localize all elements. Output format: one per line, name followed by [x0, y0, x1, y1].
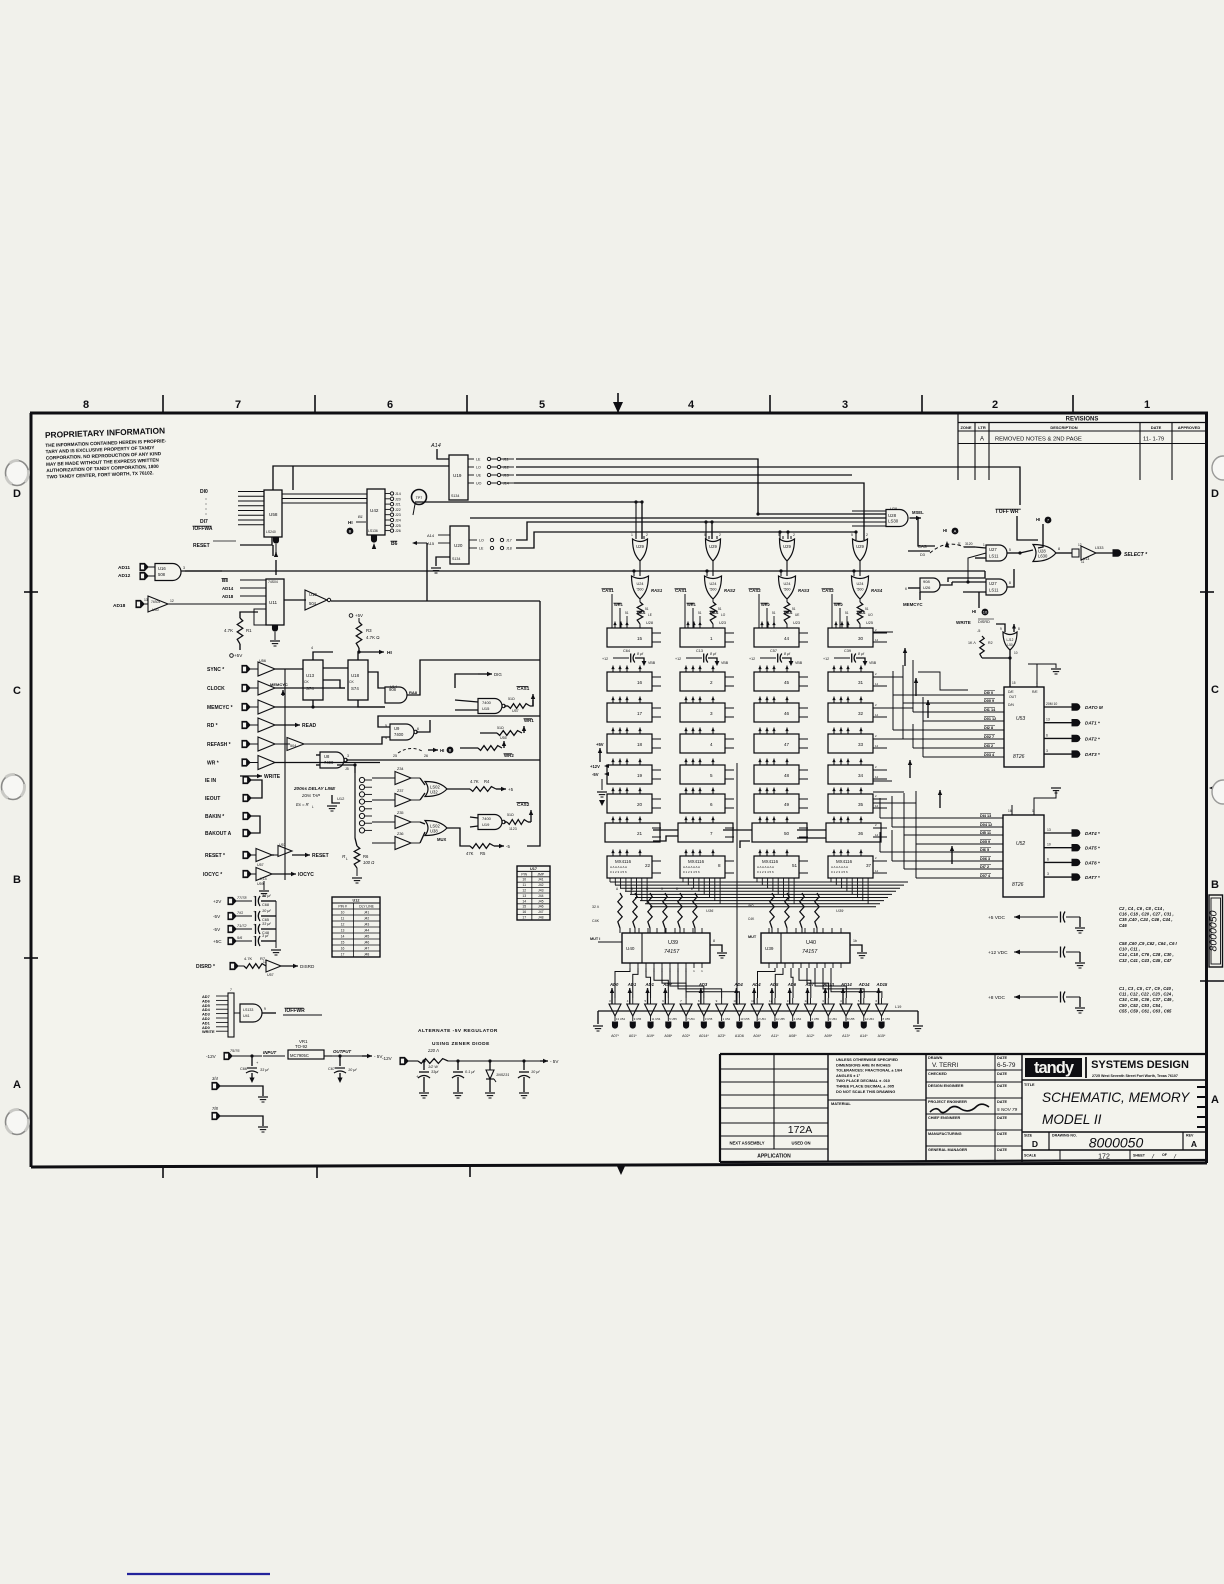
ground under buffers: [263, 881, 265, 890]
svg-text:RA8: RA8: [409, 690, 418, 695]
wire RESET to U58: [240, 537, 272, 545]
svg-text:17: 17: [341, 953, 345, 957]
svg-text:AD4: AD4: [751, 982, 761, 987]
bus stub lines into LS30: [852, 510, 886, 512]
svg-text:REMOVED NOTES & 2ND PAGE: REMOVED NOTES & 2ND PAGE: [995, 437, 1082, 443]
svg-text:A08*: A08*: [789, 1034, 797, 1038]
DRAM chip 33: [828, 734, 873, 753]
svg-text:J20: J20: [395, 497, 401, 501]
svg-text:C1 , C3 , C5 , C7 , C9 ,: C1 , C3 , C5 , C7 , C9 , C40 ,: [1119, 986, 1173, 991]
svg-text:U8: U8: [324, 754, 330, 759]
row7 inter-column wires: [653, 829, 678, 831]
resistor R5: [470, 844, 494, 849]
svg-text:A14: A14: [430, 443, 441, 449]
DRAM chip 49: [754, 794, 799, 813]
svg-text:1: 1: [1032, 809, 1034, 813]
svg-text:L533: L533: [1095, 546, 1103, 550]
svg-text:AD13: AD13: [822, 982, 834, 987]
svg-text:SCHEMATIC, MEMORY: SCHEMATIC, MEMORY: [1042, 1090, 1190, 1105]
svg-text:DATE: DATE: [997, 1084, 1008, 1088]
svg-text:25: 25: [393, 754, 397, 758]
DRAM chip 36: [826, 823, 881, 842]
svg-text:U41: U41: [243, 1014, 250, 1018]
svg-text:+12: +12: [823, 657, 829, 661]
table U17: [517, 866, 550, 920]
svg-text:R6: R6: [363, 854, 369, 859]
svg-text:TP7: TP7: [416, 496, 423, 500]
svg-text:LS133: LS133: [243, 1008, 253, 1012]
svg-text:U24: U24: [784, 582, 791, 586]
DRAM chip 45: [754, 672, 799, 691]
svg-text:8000050: 8000050: [1208, 910, 1220, 951]
svg-text:J48: J48: [364, 953, 370, 957]
svg-text:36: 36: [858, 831, 864, 836]
svg-text:DATE: DATE: [997, 1056, 1008, 1060]
U52 top pins: [1011, 805, 1013, 815]
DRAM chip 4: [680, 734, 725, 753]
svg-text:10 μf: 10 μf: [262, 909, 271, 913]
svg-text:J44: J44: [538, 894, 544, 898]
svg-text:A01*: A01*: [629, 1034, 637, 1038]
svg-text:VBB: VBB: [648, 661, 656, 665]
svg-text:J45: J45: [364, 935, 370, 939]
svg-text:2: 2: [866, 533, 868, 537]
svg-text:3: 3: [1046, 749, 1048, 753]
svg-text:3: 3: [347, 754, 349, 758]
svg-text:D07 4: D07 4: [980, 874, 991, 878]
svg-text:13: 13: [341, 929, 345, 933]
svg-text:-5: -5: [977, 629, 980, 633]
wire U53 left column feeds: [918, 672, 968, 690]
svg-text:0 1 2 3 4 5 6: 0 1 2 3 4 5 6: [831, 870, 848, 874]
wires U58 to U42: [282, 493, 367, 495]
WR buffer out / WRITE arrow: [275, 762, 380, 764]
svg-text:51Ω: 51Ω: [507, 813, 514, 817]
svg-text:6-5-79: 6-5-79: [997, 1062, 1016, 1069]
svg-text:8 μf: 8 μf: [784, 652, 791, 656]
buffer U54/U55 #9: [769, 1004, 781, 1016]
DRAM chip 32: [828, 703, 873, 722]
svg-text:SELECT *: SELECT *: [1124, 552, 1148, 558]
gate U28 LS30 (SEL): [886, 510, 908, 527]
IC U52 8T26: [1003, 815, 1044, 897]
svg-text:AD6: AD6: [787, 982, 797, 987]
svg-text:J42: J42: [364, 917, 370, 921]
gate U8 7400: [320, 752, 344, 768]
MEMCYC label arrow: [282, 690, 284, 696]
svg-text:CLOCK: CLOCK: [207, 686, 225, 692]
svg-text:5: 5: [851, 533, 853, 537]
buffer U54/U55 #8: [751, 1004, 763, 1016]
wire from B6 down: [426, 543, 428, 601]
U52 outputs DAT4-7: [1044, 832, 1072, 834]
zone tick marks top: [162, 395, 164, 413]
svg-text:J22: J22: [395, 508, 401, 512]
svg-text:A: A: [1191, 1139, 1197, 1149]
svg-text:C14 , C18 , C76 , C28 , C30: C14 , C18 , C76 , C28 , C30 ,: [1119, 952, 1174, 957]
resistor R4 to +5: [470, 787, 496, 792]
svg-text:A04*: A04*: [753, 1034, 761, 1038]
svg-text:LJ12: LJ12: [1007, 638, 1014, 642]
gate LS02 upper: [425, 782, 447, 797]
svg-text:8: 8: [1058, 547, 1060, 551]
svg-text:D01 12: D01 12: [984, 717, 996, 721]
svg-text:-5V: -5V: [213, 914, 221, 919]
svg-text:Z35: Z35: [397, 811, 404, 815]
svg-text:R5: R5: [480, 851, 486, 856]
buffer U54/U55 #14: [858, 1004, 870, 1016]
resistor R1 4.7K: [240, 612, 258, 618]
svg-text:IE IN: IE IN: [205, 778, 217, 784]
address buffer row: [598, 1010, 918, 1012]
connector U58 pin out: [273, 537, 278, 543]
flip-flop U13 S74: [303, 660, 323, 700]
mux U40/U39 74157: [622, 933, 710, 963]
svg-text:44: 44: [784, 636, 790, 641]
svg-text:J13: J13: [503, 474, 509, 478]
svg-text:C46: C46: [1119, 923, 1127, 928]
svg-text:MUX: MUX: [437, 837, 447, 842]
svg-text:SHEET: SHEET: [1133, 1154, 1146, 1158]
svg-text:5: 5: [539, 399, 545, 411]
svg-text:UE: UE: [795, 613, 799, 617]
svg-text:U26: U26: [923, 585, 931, 590]
svg-text:19: 19: [637, 773, 643, 778]
svg-text:14: 14: [341, 935, 345, 939]
svg-text:LS11: LS11: [989, 554, 999, 559]
svg-text:U9: U9: [394, 726, 400, 731]
DRAM chip 50: [752, 823, 807, 842]
svg-text:+5V: +5V: [234, 653, 243, 658]
svg-text:3: 3: [1047, 872, 1049, 876]
svg-text:DAT5 *: DAT5 *: [1085, 846, 1100, 851]
svg-text:31: 31: [858, 680, 864, 685]
svg-text:4: 4: [688, 399, 695, 411]
svg-text:Ex = R: Ex = R: [296, 802, 309, 807]
svg-text:13: 13: [522, 894, 526, 898]
svg-text:DI0 0: DI0 0: [984, 691, 993, 695]
svg-text:C2 , C4 , C6 , C8 , C14 ,: C2 , C4 , C6 , C8 , C14 ,: [1119, 906, 1164, 911]
svg-text:J5: J5: [345, 767, 349, 771]
svg-text:100 Ω: 100 Ω: [363, 860, 375, 865]
DRAM chip 31: [828, 672, 873, 691]
svg-text:DISRD: DISRD: [978, 620, 990, 624]
cap C66: [250, 1054, 253, 1057]
svg-text:U57: U57: [267, 973, 274, 977]
bus rail grounds: [597, 1011, 599, 1024]
svg-text:J12: J12: [503, 466, 509, 470]
svg-text:SCALE: SCALE: [1024, 1154, 1037, 1158]
svg-text:DISRD *: DISRD *: [196, 964, 215, 970]
svg-text:+5 VDC: +5 VDC: [988, 915, 1005, 921]
svg-text:A14*: A14*: [860, 1034, 868, 1038]
data wires to U52: [880, 817, 1003, 819]
center arrow top: [617, 393, 619, 413]
svg-text:R1: R1: [246, 628, 252, 633]
svg-text:+5V: +5V: [596, 742, 604, 747]
svg-text:5: 5: [704, 533, 706, 537]
svg-text:AD14: AD14: [840, 982, 852, 987]
svg-text:HI: HI: [440, 748, 444, 753]
svg-text:S134: S134: [452, 557, 460, 561]
svg-text:74S04: 74S04: [151, 600, 160, 604]
svg-text:U57: U57: [512, 709, 519, 713]
svg-text:J14: J14: [395, 492, 401, 496]
svg-text:MX4116: MX4116: [836, 859, 853, 864]
svg-text:DI3 2: DI3 2: [984, 744, 993, 748]
svg-text:U29: U29: [709, 544, 717, 549]
svg-text:C4K: C4K: [748, 917, 755, 921]
buffer U54/U55 #11: [804, 1004, 816, 1016]
blue pen mark bottom margin: [127, 1573, 270, 1575]
svg-text:5/6: 5/6: [237, 936, 243, 940]
svg-text:PIN: PIN: [521, 872, 527, 876]
svg-text:71/72: 71/72: [237, 924, 247, 928]
svg-text:PIN #: PIN #: [338, 905, 347, 909]
svg-text:200ns DELAY LINE: 200ns DELAY LINE: [293, 786, 336, 791]
svg-text:U24: U24: [857, 582, 864, 586]
svg-text:2: 2: [710, 680, 713, 685]
svg-text:RAS2: RAS2: [724, 588, 736, 593]
svg-text:51: 51: [698, 611, 702, 615]
svg-text:HI: HI: [387, 650, 392, 656]
svg-text:U39: U39: [765, 946, 774, 951]
svg-text:C13: C13: [696, 649, 703, 653]
svg-text:51: 51: [718, 607, 722, 611]
svg-text:J41: J41: [364, 911, 370, 915]
U53 outputs DAT0-3: [1044, 706, 1072, 708]
svg-text:11: 11: [341, 917, 345, 921]
small box pins left of U11: [254, 609, 266, 625]
resistor fan group 2: [770, 893, 774, 928]
svg-text:U38: U38: [430, 828, 438, 833]
svg-text:CAS: CAS: [918, 544, 927, 549]
svg-text:11- 1-79: 11- 1-79: [1143, 437, 1164, 443]
long vertical to mux logic: [527, 601, 540, 846]
svg-text:DO NOT SCALE THIS DRAWING: DO NOT SCALE THIS DRAWING: [836, 1089, 895, 1094]
svg-text:U19: U19: [453, 473, 462, 478]
svg-text:tandy: tandy: [1034, 1059, 1075, 1077]
gate U28b LS30: [1033, 545, 1056, 562]
wire DI5 input: [238, 514, 264, 516]
svg-text:U57: U57: [279, 843, 286, 847]
RAS driver column 4: [853, 539, 868, 561]
svg-text:3/4: 3/4: [212, 1076, 218, 1081]
wire U58 col down to U11: [275, 560, 277, 575]
svg-text:RAS3: RAS3: [798, 588, 810, 593]
svg-text:C34 , C36 , C36 , C37 , C49: C34 , C36 , C36 , C37 , C49 ,: [1119, 997, 1174, 1002]
svg-text:DAT3 *: DAT3 *: [1085, 752, 1100, 757]
DRAM chip 48: [754, 765, 799, 784]
svg-text:14: 14: [875, 638, 879, 642]
bus wire: [516, 532, 856, 548]
svg-text:IEOUT: IEOUT: [205, 796, 220, 802]
svg-text:-12V: -12V: [382, 1056, 393, 1061]
svg-text:DRAWN: DRAWN: [928, 1056, 943, 1060]
DRAM chip 44: [754, 628, 799, 647]
center arrow bottom: [616, 1164, 626, 1175]
svg-text:DI5 11: DI5 11: [980, 831, 991, 835]
svg-text:32: 32: [858, 711, 864, 716]
wire U10 out long: [331, 600, 540, 602]
svg-text:15: 15: [341, 941, 345, 945]
svg-text:12: 12: [170, 599, 174, 603]
buffer LS33 to SELECT: [1072, 549, 1079, 557]
svg-text:U27: U27: [989, 547, 997, 552]
svg-text:9 U55: 9 U55: [634, 1017, 642, 1021]
svg-text:35: 35: [858, 802, 864, 807]
svg-text:51Ω: 51Ω: [508, 697, 515, 701]
svg-text:504: 504: [290, 744, 296, 748]
svg-text:BAKOUT A: BAKOUT A: [205, 831, 232, 837]
svg-text:MUT: MUT: [748, 935, 757, 939]
svg-text:E: E: [691, 887, 693, 891]
svg-text:U12: U12: [337, 796, 345, 801]
svg-text:A: A: [980, 437, 984, 443]
svg-text:5: 5: [1009, 548, 1011, 552]
svg-text:MEMCYC: MEMCYC: [270, 682, 288, 687]
svg-text:8: 8: [718, 863, 721, 868]
buffer U40 7404: [148, 596, 168, 612]
svg-text:8: 8: [1018, 627, 1020, 631]
svg-text:AD14: AD14: [858, 982, 870, 987]
svg-text:U28: U28: [888, 513, 897, 518]
svg-text:6: 6: [1046, 733, 1048, 737]
svg-text:A07*: A07*: [611, 1034, 619, 1038]
svg-text:DAT1 *: DAT1 *: [1085, 721, 1100, 726]
svg-text:VBB: VBB: [721, 661, 729, 665]
svg-text:A: A: [13, 1079, 21, 1091]
svg-text:WRITE: WRITE: [264, 774, 281, 780]
svg-text:J43: J43: [364, 923, 370, 927]
svg-text:J26: J26: [395, 529, 401, 533]
svg-text:L19: L19: [895, 1005, 901, 1009]
svg-text:908: 908: [923, 579, 930, 584]
center arrow right edge: [1209, 783, 1222, 794]
svg-text:AD18: AD18: [113, 603, 126, 609]
svg-text:45: 45: [784, 680, 790, 685]
svg-text:J23: J23: [395, 513, 401, 517]
svg-text:C58 ,C60 ,C9 ,C62 , C64 , C6: C58 ,C60 ,C9 ,C62 , C64 , C6 I: [1119, 941, 1178, 946]
svg-text:U12: U12: [353, 899, 360, 903]
svg-text:S74: S74: [306, 686, 314, 691]
HI jumper dashed: [398, 748, 422, 753]
svg-text:'500: '500: [636, 588, 643, 592]
svg-text:S74: S74: [351, 686, 359, 691]
svg-text:9: 9: [1000, 627, 1002, 631]
svg-text:U40: U40: [806, 940, 816, 946]
svg-text:C4K: C4K: [592, 919, 600, 923]
svg-text:1,14: 1,14: [260, 877, 267, 881]
DRAM chip 46: [754, 703, 799, 722]
svg-text:U15: U15: [482, 706, 490, 711]
DRAM chip 6: [680, 794, 725, 813]
svg-text:51: 51: [792, 607, 796, 611]
svg-text:D: D: [13, 488, 21, 500]
svg-text:17: 17: [522, 916, 526, 920]
svg-text:L630: L630: [1038, 553, 1048, 558]
svg-text:7400: 7400: [482, 816, 492, 821]
svg-text:U40: U40: [152, 608, 159, 612]
svg-text:A14: A14: [427, 533, 435, 538]
svg-text:LE: LE: [476, 458, 481, 462]
DI stub labels U53: [968, 694, 1004, 696]
wire DI1 input: [238, 495, 264, 497]
svg-text:B1: B1: [358, 514, 363, 519]
gate U15 7400 CAS1: [478, 699, 502, 714]
svg-text:U14: U14: [390, 685, 397, 689]
svg-text:J47: J47: [364, 947, 370, 951]
svg-text:L: L: [312, 805, 314, 809]
svg-text:33 μf: 33 μf: [262, 922, 271, 926]
wire U42 col to U11: [292, 466, 294, 490]
svg-text:'500: '500: [856, 588, 863, 592]
svg-text:MANUFACTURING: MANUFACTURING: [928, 1132, 962, 1136]
svg-text:ANGLES ± 1°: ANGLES ± 1°: [836, 1073, 861, 1078]
svg-text:MX4116: MX4116: [762, 859, 779, 864]
svg-text:DATE: DATE: [997, 1132, 1008, 1136]
svg-text:A12*: A12*: [807, 1034, 815, 1038]
svg-text:LS136: LS136: [368, 529, 378, 533]
svg-text:U24: U24: [710, 582, 717, 586]
svg-text:AD3: AD3: [698, 982, 708, 987]
svg-text:+5V: +5V: [355, 613, 363, 618]
svg-text:U59: U59: [257, 882, 264, 886]
RAS driver column 1: [633, 539, 648, 561]
gate U27 LS11 (upper): [986, 545, 1007, 561]
svg-text:+12: +12: [602, 657, 608, 661]
table U12: [332, 897, 380, 957]
svg-text:C67: C67: [328, 1067, 335, 1071]
svg-text:51: 51: [845, 611, 849, 615]
drawing frame border: [30, 412, 1208, 415]
svg-text:7 U54: 7 U54: [687, 1017, 695, 1021]
U11 ground: [272, 625, 277, 631]
svg-text:MATERIAL: MATERIAL: [831, 1101, 851, 1106]
svg-text:14: 14: [875, 869, 879, 873]
svg-text:49: 49: [784, 802, 790, 807]
svg-text:C: C: [13, 685, 21, 697]
svg-text:0.1 μf: 0.1 μf: [465, 1070, 475, 1074]
IC U58 bus receiver: [264, 490, 282, 537]
svg-text:13 U55: 13 U55: [740, 1017, 749, 1021]
svg-text:-5: -5: [506, 844, 510, 849]
svg-text:DATE: DATE: [997, 1072, 1008, 1076]
svg-text:C10 , C11 ,: C10 , C11 ,: [1119, 947, 1140, 952]
svg-text:B: B: [1211, 879, 1219, 891]
svg-text:10 μf: 10 μf: [531, 1070, 540, 1074]
svg-text:4.7K Ω: 4.7K Ω: [366, 635, 380, 640]
IC U19 decoder S134: [449, 455, 468, 500]
svg-text:C39: C39: [844, 649, 851, 653]
svg-text:INPUT: INPUT: [263, 1050, 276, 1055]
svg-text:HI: HI: [972, 609, 976, 614]
svg-text:J45: J45: [538, 899, 544, 903]
svg-text:RD *: RD *: [207, 723, 218, 729]
svg-text:J17: J17: [506, 538, 512, 542]
svg-text:508: 508: [158, 572, 166, 577]
svg-text:8 U55: 8 U55: [847, 1017, 855, 1021]
svg-text:16: 16: [341, 947, 345, 951]
svg-text:7: 7: [235, 399, 241, 411]
svg-text:R3: R3: [366, 628, 372, 633]
svg-text:DATE: DATE: [1151, 425, 1162, 430]
svg-text:LE: LE: [648, 613, 652, 617]
svg-text:AD4: AD4: [733, 982, 743, 987]
bus wire net RAS/CAS select: [516, 459, 886, 514]
svg-text:26: 26: [424, 754, 428, 758]
svg-text:RAS4: RAS4: [871, 588, 883, 593]
